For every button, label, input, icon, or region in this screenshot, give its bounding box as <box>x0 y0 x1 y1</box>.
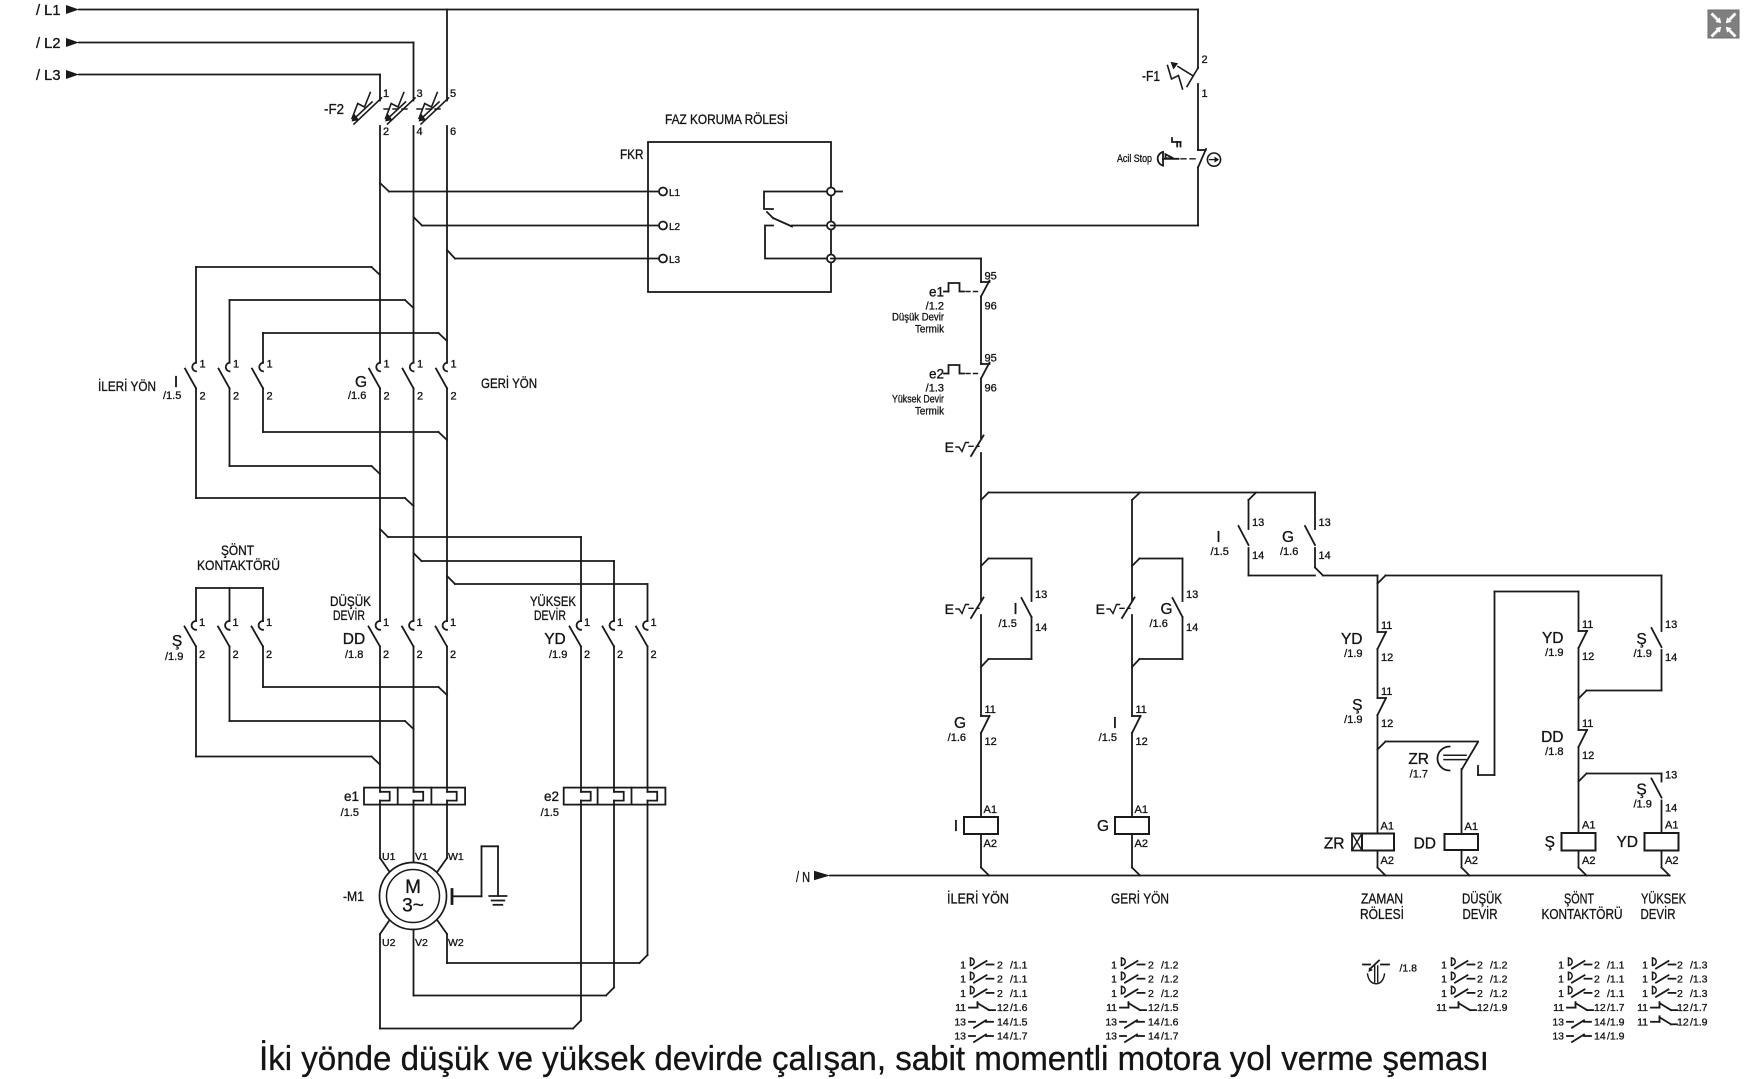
wire I poleC bottom out <box>263 388 447 440</box>
svg-text:/1.2: /1.2 <box>1161 960 1179 972</box>
wire ZR contact lower stub to loop <box>1478 766 1495 775</box>
svg-text:/1.9: /1.9 <box>1344 648 1362 660</box>
wire tap to FKR L1 <box>380 183 659 192</box>
svg-text:-M1: -M1 <box>343 888 364 904</box>
svg-text:1: 1 <box>960 960 966 972</box>
svg-text:96: 96 <box>985 383 997 395</box>
svg-text:11: 11 <box>1582 619 1593 631</box>
svg-text:14: 14 <box>1035 622 1047 634</box>
svg-text:Ş: Ş <box>1636 782 1646 799</box>
svg-text:1: 1 <box>383 88 389 100</box>
wire YD feed 2 <box>414 553 615 621</box>
wire phase A to e1 <box>379 647 381 788</box>
wire Ş coil to N <box>1579 851 1587 876</box>
contactor YD power name <box>544 631 567 661</box>
svg-text:2: 2 <box>1677 988 1683 1000</box>
wire YD2 to e2 <box>613 647 615 788</box>
contact DD 11-12 (Ş column) <box>1541 718 1594 762</box>
svg-text:1: 1 <box>266 617 272 629</box>
wire İLERİ column mid <box>980 615 982 716</box>
label ŞÖNT KONTAKTÖRÜ (power) <box>197 541 280 573</box>
wire I 13-14 drop (parallel pair) <box>1248 500 1250 529</box>
wire L2 horizontal <box>79 42 414 44</box>
svg-text:1: 1 <box>417 617 423 629</box>
wire FKR out to control column <box>831 259 981 283</box>
svg-text:2: 2 <box>1594 974 1600 986</box>
contact G 11-12 interlock (İLERİ column) <box>948 704 997 748</box>
svg-text:DD: DD <box>1414 836 1436 853</box>
svg-text:1: 1 <box>1441 988 1447 1000</box>
contactor I pole A <box>185 359 206 403</box>
svg-text:/1.5: /1.5 <box>1010 1016 1028 1028</box>
contactor Ş pole 3 <box>252 617 273 661</box>
svg-text:A1: A1 <box>1465 821 1478 833</box>
svg-text:/ L1: / L1 <box>36 3 61 19</box>
svg-text:1: 1 <box>1111 960 1117 972</box>
wire e1 W1 to motor <box>438 805 448 872</box>
svg-text:/ L3: / L3 <box>36 68 61 84</box>
svg-text:3~: 3~ <box>402 896 424 917</box>
wire YD coil to N <box>1662 851 1670 876</box>
svg-text:ŞÖNT: ŞÖNT <box>1564 890 1594 908</box>
contactor I pole B <box>219 359 240 403</box>
svg-text:e1: e1 <box>344 789 359 804</box>
wire e2 to E stop contact <box>980 379 982 439</box>
wire L1 horizontal <box>79 9 1198 11</box>
svg-text:/1.5: /1.5 <box>999 618 1017 630</box>
svg-text:Acil Stop: Acil Stop <box>1117 153 1152 165</box>
wire YD3 to e2 <box>647 647 649 788</box>
svg-text:2: 2 <box>1677 974 1683 986</box>
svg-text:/1.2: /1.2 <box>1161 988 1179 1000</box>
svg-text:/1.9: /1.9 <box>1490 1002 1508 1014</box>
svg-text:4: 4 <box>417 126 423 138</box>
svg-text:/1.6: /1.6 <box>1161 1016 1179 1028</box>
svg-text:U2: U2 <box>382 937 396 949</box>
svg-text:/1.9: /1.9 <box>165 651 183 663</box>
wire parallel pair bottom bracket <box>1249 568 1324 576</box>
wire Ş pole2 out <box>230 647 414 730</box>
wire U2 loop <box>380 921 581 1029</box>
contact ZR timed (delay close) <box>1408 742 1478 781</box>
svg-text:A1: A1 <box>1582 820 1595 832</box>
svg-text:13: 13 <box>1665 770 1677 782</box>
wire phase A vertical x380 mid <box>379 388 381 621</box>
svg-text:-F2: -F2 <box>324 102 344 118</box>
svg-text:2: 2 <box>997 974 1003 986</box>
svg-text:1: 1 <box>960 988 966 1000</box>
wire rail jog col3 <box>1249 493 1257 501</box>
contactor G power name <box>348 374 367 402</box>
cross-ref table coil ZR (timed contact) <box>1363 961 1417 984</box>
svg-text:YD: YD <box>544 631 566 648</box>
svg-text:1: 1 <box>617 617 623 629</box>
svg-text:/1.9: /1.9 <box>1690 1016 1708 1028</box>
motor PE terminal bar <box>451 890 454 904</box>
contactor DD pole 3 <box>436 617 457 661</box>
contactor I power name <box>163 374 181 402</box>
svg-text:I: I <box>1113 715 1117 732</box>
wire L3 horizontal <box>79 74 380 76</box>
svg-text:A2: A2 <box>1465 855 1478 867</box>
svg-text:2: 2 <box>266 649 272 661</box>
svg-text:A2: A2 <box>1582 855 1595 867</box>
relay FKR terminal L2 <box>659 222 681 234</box>
svg-text:14: 14 <box>1148 1016 1160 1028</box>
wire YD1 to e2 <box>580 647 582 788</box>
svg-text:12: 12 <box>997 1002 1009 1014</box>
relay FKR terminal L1 <box>659 188 681 200</box>
svg-text:2: 2 <box>1148 974 1154 986</box>
cross-ref table coil DD <box>1436 958 1508 1014</box>
svg-text:A1: A1 <box>1381 821 1394 833</box>
svg-text:1: 1 <box>1642 988 1648 1000</box>
coil Ş (şönt contactor) <box>1545 820 1596 868</box>
svg-text:13: 13 <box>1552 1031 1564 1043</box>
svg-text:1: 1 <box>1202 88 1208 100</box>
wire between e1 and e2 contacts <box>980 297 982 365</box>
relay FKR title <box>665 110 788 127</box>
wire L3 drop to -F2 pole1 <box>379 75 381 101</box>
svg-text:/1.1: /1.1 <box>1010 988 1028 1000</box>
wire ZR column to coil <box>1378 715 1386 834</box>
viewer fit-screen icon <box>1708 10 1739 38</box>
contactor G pole B <box>403 359 424 403</box>
coil G (GERİ YÖN contactor) <box>1097 804 1149 850</box>
wire e1 V1 to motor <box>413 805 415 863</box>
svg-text:5: 5 <box>450 88 456 100</box>
breaker -F2 label <box>324 102 344 118</box>
svg-text:14: 14 <box>1665 652 1677 664</box>
svg-text:95: 95 <box>985 353 997 365</box>
breaker -F2 mechanical link dashes <box>384 108 442 110</box>
wire phase B vertical x413.5 mid <box>413 388 415 621</box>
svg-text:A2: A2 <box>984 838 997 850</box>
wire İLERİ column to coil <box>980 733 982 817</box>
svg-text:DEVİR: DEVİR <box>534 606 566 623</box>
coil DD (düşük devir contactor) <box>1414 834 1478 867</box>
svg-text:/1.1: /1.1 <box>1010 974 1028 986</box>
svg-text:2: 2 <box>617 649 623 661</box>
wire E to control rail <box>980 453 982 600</box>
breaker -F1 <box>1142 54 1208 100</box>
svg-text:YD: YD <box>1616 834 1638 851</box>
cross-ref table coil G <box>1105 958 1178 1043</box>
svg-text:13: 13 <box>954 1016 966 1028</box>
svg-text:12: 12 <box>1381 652 1393 664</box>
svg-text:-F1: -F1 <box>1142 68 1160 85</box>
svg-text:14: 14 <box>1319 550 1331 562</box>
svg-text:1: 1 <box>200 359 206 371</box>
svg-text:Düşük Devir: Düşük Devir <box>892 312 944 324</box>
wire e2 out 2 <box>613 805 615 988</box>
svg-text:1: 1 <box>1558 988 1564 1000</box>
relay FKR terminal L3 <box>659 255 681 267</box>
svg-text:2: 2 <box>1594 988 1600 1000</box>
svg-text:E: E <box>945 439 954 455</box>
svg-text:YD: YD <box>1341 631 1363 648</box>
cross-ref table coil YD <box>1637 958 1708 1028</box>
svg-text:DEVİR: DEVİR <box>333 606 365 623</box>
wire ZR column top <box>1377 576 1379 633</box>
svg-text:1: 1 <box>584 617 590 629</box>
wire tap to FKR L2 <box>414 217 660 226</box>
label ZAMAN RÖLESİ <box>1360 892 1404 924</box>
svg-text:Ş: Ş <box>1352 697 1362 714</box>
contact Ş 13-14 upper (YÜKSEK feed) <box>1579 576 1678 699</box>
svg-text:2: 2 <box>1477 974 1483 986</box>
svg-text:/1.5: /1.5 <box>541 807 559 819</box>
breaker -F2 pole 1 <box>352 88 390 138</box>
label İLERİ YÖN (control) <box>947 890 1009 908</box>
svg-text:11: 11 <box>1381 686 1392 698</box>
svg-text:96: 96 <box>985 301 997 313</box>
wire emergency stop to FKR <box>831 168 1198 226</box>
svg-text:e2: e2 <box>544 789 559 804</box>
wire I 13-14 out <box>1248 548 1250 576</box>
svg-text:/1.3: /1.3 <box>1690 988 1708 1000</box>
pushbutton Acil Stop <box>1117 138 1221 168</box>
svg-text:12: 12 <box>1381 718 1393 730</box>
wire Ş column top <box>1578 592 1580 632</box>
wire Ş column to coil <box>1579 747 1587 833</box>
wire I poleB top feed <box>230 300 414 363</box>
svg-text:6: 6 <box>450 126 456 138</box>
svg-text:1: 1 <box>1111 974 1117 986</box>
motor terminal labels bottom <box>382 937 464 949</box>
overload contact e1 95-96 <box>892 271 997 336</box>
wire YD feed 3 <box>447 576 648 621</box>
svg-text:/1.8: /1.8 <box>345 649 363 661</box>
svg-text:/1.2: /1.2 <box>1490 974 1508 986</box>
svg-text:DD: DD <box>343 631 365 648</box>
svg-text:11: 11 <box>1637 1002 1648 1014</box>
svg-text:2: 2 <box>1202 54 1208 66</box>
wire phase B vertical x413.5 upper <box>413 126 415 363</box>
svg-text:14: 14 <box>1594 1031 1606 1043</box>
overload contact e2 95-96 <box>892 353 997 418</box>
svg-text:1: 1 <box>384 359 390 371</box>
label GERİ YÖN (control) <box>1111 890 1169 908</box>
svg-text:11: 11 <box>1553 1002 1564 1014</box>
svg-text:/1.9: /1.9 <box>1607 1016 1625 1028</box>
svg-text:12: 12 <box>1677 1002 1689 1014</box>
coil ZR (time relay) <box>1324 821 1394 868</box>
svg-text:2: 2 <box>1677 960 1683 972</box>
svg-text:/1.5: /1.5 <box>341 807 359 819</box>
svg-text:Ş: Ş <box>172 633 182 650</box>
svg-text:14: 14 <box>1594 1016 1606 1028</box>
svg-text:/1.1: /1.1 <box>1607 974 1625 986</box>
contactor Ş pole 2 <box>218 617 239 661</box>
svg-text:G: G <box>355 374 367 391</box>
svg-text:14: 14 <box>1665 803 1677 815</box>
breaker -F2 pole 3 <box>419 88 457 138</box>
svg-text:2: 2 <box>417 391 423 403</box>
svg-text:1: 1 <box>1642 974 1648 986</box>
svg-text:12: 12 <box>1148 1002 1160 1014</box>
svg-text:V2: V2 <box>415 937 428 949</box>
svg-text:2: 2 <box>450 649 456 661</box>
svg-text:İLERİ YÖN: İLERİ YÖN <box>947 890 1009 908</box>
contact Ş 11-12 (ZR column) <box>1344 686 1393 730</box>
coil YD (yüksek devir contactor) <box>1616 820 1678 868</box>
stop button E (common) <box>945 436 984 457</box>
wire phase C to e1 <box>446 647 448 788</box>
svg-text:13: 13 <box>1319 517 1331 529</box>
overload e2 heater box <box>564 788 666 805</box>
svg-text:A1: A1 <box>1135 804 1148 816</box>
contactor YD pole 3 <box>636 617 657 661</box>
svg-text:DEVİR: DEVİR <box>1641 905 1676 923</box>
contactor DD power name <box>343 631 365 661</box>
svg-text:/1.9: /1.9 <box>1344 714 1362 726</box>
svg-text:E: E <box>1096 601 1105 617</box>
svg-text:Ş: Ş <box>1636 631 1646 648</box>
svg-text:ZAMAN: ZAMAN <box>1361 892 1403 908</box>
wire e2 out 1 <box>580 805 582 1021</box>
wire ZR contact to DD coil <box>1462 769 1478 834</box>
svg-text:1: 1 <box>1111 988 1117 1000</box>
svg-text:13: 13 <box>1552 1016 1564 1028</box>
wire phase C vertical x447 mid <box>446 388 448 621</box>
wire L2 drop to -F2 pole2 <box>413 43 415 101</box>
svg-text:A2: A2 <box>1381 855 1394 867</box>
svg-text:A2: A2 <box>1665 855 1678 867</box>
svg-text:12: 12 <box>985 736 997 748</box>
contactor Ş pole 1 <box>185 617 206 661</box>
svg-text:/1.1: /1.1 <box>1607 988 1625 1000</box>
svg-text:V1: V1 <box>415 851 428 863</box>
contactor DD pole 1 <box>369 617 390 661</box>
wire ZR coil to N <box>1378 851 1386 876</box>
svg-text:Termik: Termik <box>915 406 944 418</box>
svg-text:/1.6: /1.6 <box>1280 546 1298 558</box>
svg-text:2: 2 <box>451 391 457 403</box>
svg-text:İLERİ YÖN: İLERİ YÖN <box>98 377 156 394</box>
svg-text:A2: A2 <box>1135 838 1148 850</box>
svg-text:G: G <box>1097 818 1109 835</box>
svg-text:/1.8: /1.8 <box>1400 963 1418 975</box>
svg-text:L2: L2 <box>669 222 681 233</box>
wire e2 out 3 <box>647 805 649 955</box>
svg-text:1: 1 <box>1558 960 1564 972</box>
svg-text:1: 1 <box>960 974 966 986</box>
motor -M1 text <box>402 877 424 917</box>
svg-text:U1: U1 <box>382 851 396 863</box>
svg-text:E: E <box>945 601 954 617</box>
svg-text:KONTAKTÖRÜ: KONTAKTÖRÜ <box>1542 905 1623 923</box>
wire DD coil to N <box>1462 850 1470 876</box>
svg-text:11: 11 <box>1106 1002 1117 1014</box>
svg-text:W2: W2 <box>448 937 464 949</box>
svg-text:I: I <box>954 818 958 835</box>
wire -F1 to emergency stop <box>1197 84 1199 150</box>
motor -M1 name <box>343 888 364 904</box>
svg-text:ZR: ZR <box>1324 836 1345 853</box>
stop button E (İLERİ column) <box>945 598 984 619</box>
svg-text:Termik: Termik <box>915 324 944 336</box>
svg-text:KONTAKTÖRÜ: KONTAKTÖRÜ <box>197 556 280 573</box>
svg-text:G: G <box>1282 529 1294 546</box>
svg-text:RÖLESİ: RÖLESİ <box>1360 905 1404 923</box>
svg-text:11: 11 <box>1582 718 1593 730</box>
svg-text:12: 12 <box>1136 736 1148 748</box>
svg-text:L1: L1 <box>669 188 681 199</box>
wire GERİ column mid <box>1131 615 1133 716</box>
wire control rail 2 <box>1323 576 1662 584</box>
wire YD column to coil <box>1661 801 1663 834</box>
svg-text:2: 2 <box>199 649 205 661</box>
svg-text:11: 11 <box>1436 1002 1447 1014</box>
svg-text:A1: A1 <box>1665 820 1678 832</box>
svg-text:2: 2 <box>997 960 1003 972</box>
contact YD 11-12 (ZR column) <box>1341 620 1393 664</box>
wire V2 loop <box>414 930 615 996</box>
svg-text:e1: e1 <box>929 285 944 300</box>
svg-text:/1.1: /1.1 <box>1010 960 1028 972</box>
svg-text:2: 2 <box>200 391 206 403</box>
svg-text:11: 11 <box>1381 620 1392 632</box>
svg-text:1: 1 <box>1558 974 1564 986</box>
svg-text:2: 2 <box>651 649 657 661</box>
svg-text:/1.9: /1.9 <box>549 649 567 661</box>
svg-text:1: 1 <box>199 617 205 629</box>
svg-text:12: 12 <box>1677 1016 1689 1028</box>
relay FKR name label <box>620 146 644 162</box>
svg-text:FAZ KORUMA RÖLESİ: FAZ KORUMA RÖLESİ <box>665 110 788 127</box>
svg-text:Yüksek Devir: Yüksek Devir <box>892 394 944 406</box>
contact G 13-14 (parallel pair) <box>1280 517 1331 562</box>
svg-text:ZR: ZR <box>1408 751 1429 768</box>
svg-text:1: 1 <box>451 359 457 371</box>
svg-text:1: 1 <box>233 359 239 371</box>
svg-text:G: G <box>954 715 966 732</box>
svg-text:13: 13 <box>1665 619 1677 631</box>
contactor I pole C <box>252 359 273 403</box>
svg-text:14: 14 <box>1252 550 1264 562</box>
contactor DD pole 2 <box>402 617 423 661</box>
svg-text:/1.6: /1.6 <box>348 390 366 402</box>
svg-text:12: 12 <box>1477 1002 1489 1014</box>
svg-text:G: G <box>1160 601 1172 618</box>
relay FKR right terminal 3 <box>827 255 835 263</box>
wire L1 drop to -F1 <box>1197 10 1199 69</box>
svg-text:/1.2: /1.2 <box>1490 960 1508 972</box>
svg-text:/1.9: /1.9 <box>1634 648 1652 660</box>
label DÜŞÜK DEVİR (control) <box>1462 890 1502 924</box>
svg-text:I: I <box>1013 601 1017 618</box>
wire e1 U1 to motor <box>380 805 389 872</box>
svg-text:/1.9: /1.9 <box>1634 799 1652 811</box>
wire motor PE to earth <box>453 846 498 896</box>
svg-text:2: 2 <box>1594 960 1600 972</box>
svg-text:/1.3: /1.3 <box>1690 960 1708 972</box>
contactor YD pole 2 <box>603 617 624 661</box>
wire Ş pole1 out <box>196 647 380 765</box>
node L3 supply label + arrow <box>36 68 79 84</box>
stop button E (GERİ column) <box>1096 598 1135 619</box>
svg-text:2: 2 <box>584 649 590 661</box>
svg-text:1: 1 <box>417 359 423 371</box>
motor terminal labels top <box>382 851 464 863</box>
contact I 11-12 interlock (GERİ column) <box>1099 704 1148 748</box>
svg-text:1: 1 <box>233 617 239 629</box>
svg-text:12: 12 <box>1582 750 1594 762</box>
svg-text:3: 3 <box>417 88 423 100</box>
svg-text:/1.3: /1.3 <box>1690 974 1708 986</box>
motor -M1 circle <box>380 863 447 930</box>
